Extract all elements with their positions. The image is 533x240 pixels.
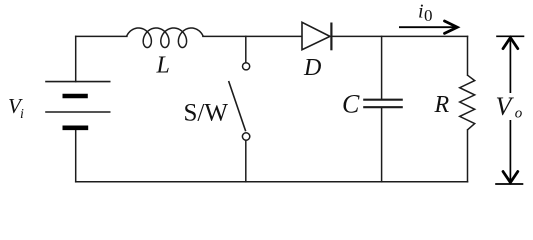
wire resistor to bottom bbox=[467, 130, 469, 182]
Vo arrow bottom bar bbox=[495, 183, 523, 185]
wire capacitor branch top bbox=[381, 36, 383, 99]
diode D triangle bbox=[302, 22, 330, 49]
capacitor C plate top bbox=[363, 99, 403, 101]
Vo arrow shaft lower bbox=[509, 120, 511, 182]
battery V_i plate short thick bottom bbox=[63, 126, 89, 131]
wire bottom horizontal bbox=[76, 181, 468, 183]
svg-text:i: i bbox=[418, 1, 424, 23]
wire right vertical to resistor bbox=[467, 36, 469, 75]
Vo arrow shaft upper bbox=[509, 38, 511, 94]
switch S/W lever blade bbox=[229, 81, 246, 131]
inductor L1 coil bbox=[127, 28, 203, 48]
current arrow i0 head bbox=[445, 21, 458, 33]
battery V_i plate long lower bbox=[45, 111, 110, 113]
svg-text:D: D bbox=[303, 55, 321, 81]
diode D cathode bar bbox=[330, 23, 332, 51]
battery V_i plate long top bbox=[45, 81, 110, 83]
battery V_i plate short thick upper bbox=[63, 94, 88, 99]
Vo arrowhead up bbox=[503, 38, 518, 49]
svg-text:V: V bbox=[496, 92, 515, 121]
current arrow i0 line bbox=[399, 26, 456, 28]
wire switch branch top bbox=[245, 36, 247, 62]
wire capacitor branch bottom bbox=[381, 107, 383, 181]
svg-text:0: 0 bbox=[424, 6, 433, 25]
Vo arrow top bar bbox=[496, 35, 524, 37]
wire battery bottom lead bbox=[75, 128, 77, 182]
svg-text:i: i bbox=[20, 107, 24, 122]
switch S/W bottom contact circle bbox=[242, 133, 249, 140]
svg-text:L: L bbox=[156, 53, 170, 79]
resistor R zigzag bbox=[460, 75, 475, 130]
svg-text:R: R bbox=[434, 92, 450, 118]
svg-text:S/W: S/W bbox=[184, 100, 229, 127]
svg-text:o: o bbox=[515, 106, 523, 122]
wire switch branch bottom bbox=[245, 140, 247, 182]
Vo arrowhead down bbox=[503, 172, 518, 183]
svg-text:C: C bbox=[342, 89, 360, 118]
wire inductor to diode bbox=[203, 35, 302, 37]
capacitor C plate bottom bbox=[363, 106, 403, 108]
wire top-left horizontal bbox=[76, 35, 127, 37]
wire diode to top-right corner bbox=[331, 35, 467, 37]
switch S/W top contact circle bbox=[243, 63, 250, 70]
wire left vertical (battery top lead) bbox=[75, 36, 77, 81]
